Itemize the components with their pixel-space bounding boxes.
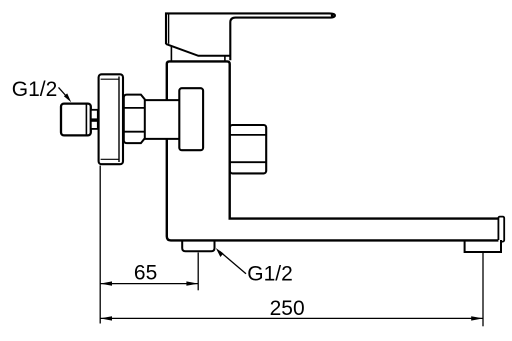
svg-text:G1/2: G1/2 bbox=[247, 262, 293, 285]
handle base bottom slant bbox=[166, 44, 230, 56]
svg-text:250: 250 bbox=[270, 297, 305, 320]
fitting thread ridge lower bbox=[91, 121, 98, 129]
boss on body bbox=[179, 88, 203, 150]
right block lower line bbox=[230, 161, 266, 163]
leader line top G1/2 bbox=[59, 87, 68, 97]
body and spout outline bbox=[167, 61, 499, 240]
svg-text:65: 65 bbox=[134, 262, 157, 285]
extension line right (from spout outlet) bbox=[482, 253, 484, 326]
right block upper line bbox=[230, 134, 266, 136]
wall pipe between nut and body bbox=[144, 100, 180, 139]
nut facet line upper bbox=[124, 107, 145, 109]
dimension line 250 bbox=[100, 317, 483, 319]
G1/2 fitting block bbox=[61, 104, 91, 136]
handle neck right stub bbox=[224, 56, 226, 61]
dimension line 65 bbox=[100, 283, 198, 285]
fitting inner edge line bbox=[85, 105, 87, 135]
plate inner top line bbox=[101, 78, 119, 80]
escutcheon plate bbox=[99, 74, 123, 164]
handle base inner left line bbox=[168, 14, 170, 44]
fitting thread ridge upper bbox=[91, 110, 98, 120]
extension line middle (from aerator) bbox=[197, 253, 199, 291]
spout end cap bbox=[498, 217, 504, 242]
handle neck left edge bbox=[170, 46, 172, 60]
leader line bottom G1/2 bbox=[220, 251, 247, 274]
svg-text:G1/2: G1/2 bbox=[12, 78, 58, 101]
right side block bbox=[230, 125, 266, 173]
handle lever and base outline bbox=[166, 13, 335, 60]
extension line left (from escutcheon) bbox=[99, 166, 101, 324]
plate inner right line bbox=[118, 77, 120, 163]
lever end dot bbox=[331, 14, 334, 17]
hex nut bbox=[124, 95, 145, 144]
nut facet line lower bbox=[124, 131, 145, 133]
aerator outlet under spout (left) bbox=[182, 240, 214, 251]
plate inner bottom line bbox=[101, 158, 119, 160]
spout bottom outlet (right) bbox=[465, 240, 501, 252]
